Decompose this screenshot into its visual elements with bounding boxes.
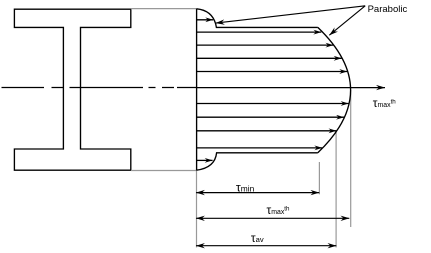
stress arrow web 7 bbox=[197, 130, 336, 132]
web parabolic stress envelope bbox=[318, 27, 351, 152]
extension line tau av bbox=[335, 131, 337, 247]
construction line top (flange top to diagram) bbox=[131, 8, 197, 10]
I-beam cross-section outline bbox=[14, 9, 130, 170]
stress arrow (top flange) bbox=[197, 19, 213, 21]
svg-text:τav: τav bbox=[251, 231, 264, 245]
diagram baseline (vertical datum) bbox=[196, 9, 198, 171]
dimension line tau max bbox=[196, 217, 349, 219]
stress arrow web 8 bbox=[197, 147, 322, 149]
dimension line tau av bbox=[196, 245, 336, 247]
centerline (dash-dot neutral axis through I-beam) bbox=[2, 87, 197, 89]
extension line at parabola apex (tau max) bbox=[350, 90, 352, 227]
extension line at diagram baseline bbox=[196, 170, 198, 247]
neutral axis arrow (tau max) bbox=[197, 87, 385, 89]
extension line tau min bbox=[318, 162, 320, 194]
stress arrow web 3 bbox=[197, 57, 342, 59]
bottom flange parabolic stress curve bbox=[196, 153, 317, 170]
stress arrow web 5 bbox=[197, 103, 349, 105]
stress arrow web 2 bbox=[197, 44, 333, 46]
stress arrow web 1 bbox=[197, 31, 321, 33]
stress arrow web 6 bbox=[197, 116, 344, 118]
stress arrow (bottom flange) bbox=[197, 159, 213, 161]
svg-text:τmin: τmin bbox=[236, 180, 255, 194]
construction line bottom (flange bottom to diagram) bbox=[131, 170, 197, 172]
svg-text:τmaxth: τmaxth bbox=[373, 96, 397, 110]
leader line to web parabola bbox=[329, 6, 365, 35]
dimension line tau min bbox=[196, 192, 319, 194]
leader line to flange curve bbox=[216, 6, 366, 23]
svg-text:τmaxth: τmaxth bbox=[267, 203, 291, 217]
top flange parabolic stress curve bbox=[197, 9, 318, 28]
stress arrow web 4 bbox=[197, 71, 347, 73]
svg-text:Parabolic: Parabolic bbox=[368, 4, 408, 15]
